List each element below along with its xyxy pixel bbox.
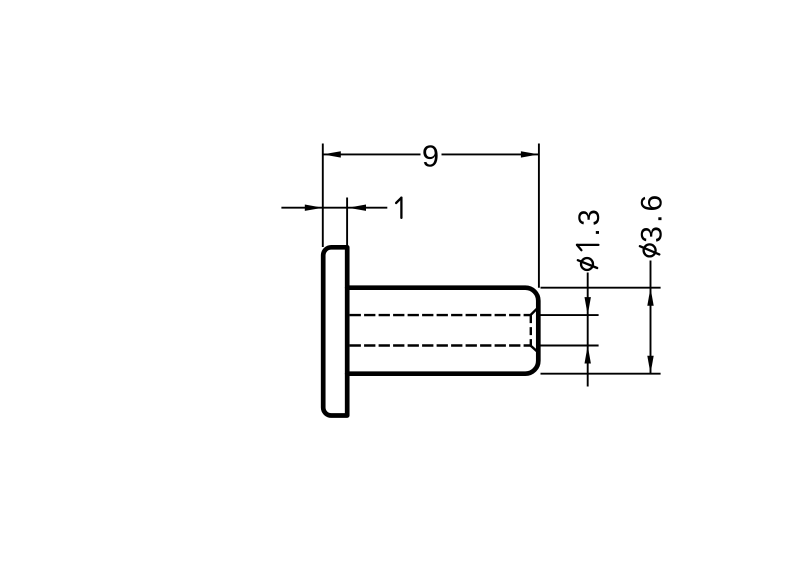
svg-text:.3: .3 [573, 207, 606, 237]
svg-text:3.6: 3.6 [636, 192, 669, 243]
svg-text:9: 9 [422, 139, 439, 174]
